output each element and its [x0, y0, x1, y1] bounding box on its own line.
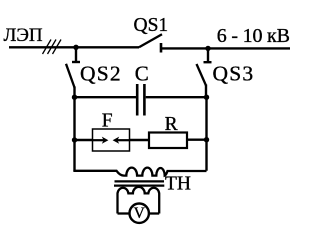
transformer TH secondary winding [118, 187, 160, 214]
svg-text:F: F [102, 111, 113, 132]
disconnector QS2 fixed contact bar [72, 61, 80, 63]
voltmeter V circle [130, 204, 149, 223]
wire: incoming line left segment [9, 46, 139, 48]
transformer TH core line 1 [115, 180, 165, 182]
arrester F right electrode arrow [113, 137, 129, 144]
node: junction dot C-row left [72, 95, 77, 100]
svg-text:ЛЭП: ЛЭП [4, 25, 43, 46]
wire: left bus to arrester F [75, 139, 93, 141]
node: junction dot right (QS3 tap) [205, 46, 210, 51]
svg-text:QS1: QS1 [134, 15, 169, 36]
wire: secondary right to voltmeter [149, 212, 160, 214]
wire: bus 6-10kV right segment [161, 47, 290, 49]
wire: left bus vertical [73, 97, 75, 171]
svg-text:V: V [134, 205, 146, 222]
svg-text:R: R [165, 114, 178, 135]
disconnector QS3 fixed contact bar [204, 61, 212, 63]
disconnector QS2 blade [66, 64, 75, 88]
wire: resistor R to right bus [187, 138, 207, 140]
transformer TH core line 2 [114, 184, 164, 186]
node: junction dot F-row left [72, 137, 77, 142]
node: junction dot left (QS2 tap) [73, 45, 78, 50]
arrester F box [93, 129, 130, 151]
disconnector QS1 blade [139, 34, 162, 47]
node: junction dot F-row right [204, 137, 209, 142]
node: junction dot C-row right [204, 95, 209, 100]
svg-text:QS2: QS2 [80, 61, 122, 85]
svg-text:QS3: QS3 [213, 62, 255, 86]
wire: capacitor row left [75, 96, 137, 98]
wire QS3 to capacitor row [205, 85, 207, 99]
wire: secondary left to voltmeter [118, 212, 131, 214]
disconnector QS2 top stub [75, 47, 77, 61]
wire QS2 to capacitor row [73, 87, 75, 99]
arrester F left electrode arrow [93, 137, 108, 144]
capacitor C right plate [143, 84, 146, 116]
capacitor C left plate [136, 84, 139, 116]
three-phase slash marks [43, 40, 62, 55]
disconnector QS1 fixed contact [160, 43, 163, 53]
svg-text:ТН: ТН [165, 174, 191, 195]
resistor R body [149, 133, 187, 149]
disconnector QS3 blade [197, 64, 207, 86]
wire: right bus vertical [205, 97, 207, 171]
svg-text:C: C [135, 62, 149, 86]
transformer TH primary winding with leads [75, 168, 207, 176]
svg-text:6 - 10 кВ: 6 - 10 кВ [217, 25, 290, 47]
wire: arrester F to resistor R [130, 139, 150, 141]
disconnector QS3 top stub [207, 48, 209, 61]
wire: capacitor row right [146, 96, 207, 98]
